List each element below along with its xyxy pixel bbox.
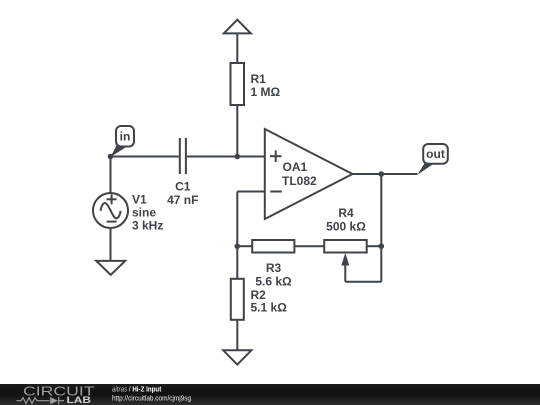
wire node B to R3 — [237, 245, 252, 247]
op-amp OA1 — [265, 129, 353, 219]
resistor R2 — [231, 279, 244, 320]
label R2 value — [251, 288, 288, 315]
power supply V+ symbol — [224, 20, 251, 34]
svg-text:OA1: OA1 — [283, 160, 308, 174]
svg-text:5.6 kΩ: 5.6 kΩ — [255, 275, 292, 289]
in flag box — [116, 126, 134, 147]
svg-text:R4: R4 — [338, 206, 354, 220]
wire V+ to R1 — [236, 33, 238, 63]
capacitor C1 — [180, 138, 186, 174]
svg-text:R3: R3 — [266, 261, 282, 275]
wire output node to R4 node — [380, 174, 382, 246]
ground (bottom) — [223, 350, 251, 364]
svg-text:http://circuitlab.com/cjmj9sg: http://circuitlab.com/cjmj9sg — [112, 395, 191, 403]
ground (left) — [96, 261, 125, 275]
wire R4 to node C — [367, 245, 382, 247]
svg-text:47 nF: 47 nF — [167, 193, 198, 207]
label OA1 type — [282, 160, 317, 188]
svg-text:500 kΩ: 500 kΩ — [326, 220, 366, 234]
node out junction dot — [379, 171, 385, 177]
label R1 value — [251, 72, 281, 99]
svg-text:out: out — [426, 147, 445, 161]
wire wiper to node C — [345, 246, 381, 282]
resistor R3 — [252, 240, 294, 253]
wire R1 to node A — [236, 105, 238, 157]
R4 wiper arrow — [341, 253, 349, 282]
wire op-amp output — [353, 173, 418, 175]
label R4 value — [326, 206, 366, 234]
label out — [426, 147, 445, 161]
label C1 value — [167, 180, 198, 208]
label in — [120, 130, 131, 144]
node B junction dot — [235, 243, 241, 249]
svg-text:LAB: LAB — [67, 395, 92, 405]
footer title text — [112, 386, 191, 403]
svg-text:1 MΩ: 1 MΩ — [251, 85, 281, 99]
svg-text:V1: V1 — [132, 193, 147, 207]
node A junction dot — [235, 154, 241, 160]
CircuitLab logo — [17, 383, 95, 405]
node in junction dot — [108, 154, 114, 160]
node C junction dot — [379, 243, 385, 249]
svg-text:sine: sine — [132, 206, 156, 220]
svg-text:aitras / Hi-Z Input: aitras / Hi-Z Input — [112, 386, 162, 394]
out flag wedge — [418, 163, 435, 175]
wire node B to R2 — [236, 246, 238, 279]
wire minus input to node B — [237, 192, 264, 247]
wire R2 to ground — [236, 320, 238, 351]
resistor R1 — [231, 63, 245, 105]
wire R3 to R4 — [294, 245, 324, 247]
wire C1 to op-amp + input — [187, 156, 265, 158]
svg-text:C1: C1 — [175, 180, 191, 194]
out flag box — [423, 144, 448, 164]
label V1 value — [132, 193, 163, 233]
in flag wedge — [111, 146, 127, 158]
footer bar — [0, 384, 540, 405]
svg-text:3 kHz: 3 kHz — [132, 219, 163, 233]
svg-text:TL082: TL082 — [282, 174, 317, 188]
voltage source V1 — [93, 193, 128, 228]
wire in node to C1 — [111, 156, 179, 158]
label R3 value — [255, 261, 292, 289]
wire V1 to ground — [110, 228, 112, 261]
wire in node to V1 — [110, 157, 112, 194]
svg-text:R1: R1 — [251, 72, 267, 86]
svg-text:in: in — [120, 130, 131, 144]
svg-text:5.1 kΩ: 5.1 kΩ — [251, 301, 288, 315]
potentiometer R4 — [324, 240, 367, 253]
